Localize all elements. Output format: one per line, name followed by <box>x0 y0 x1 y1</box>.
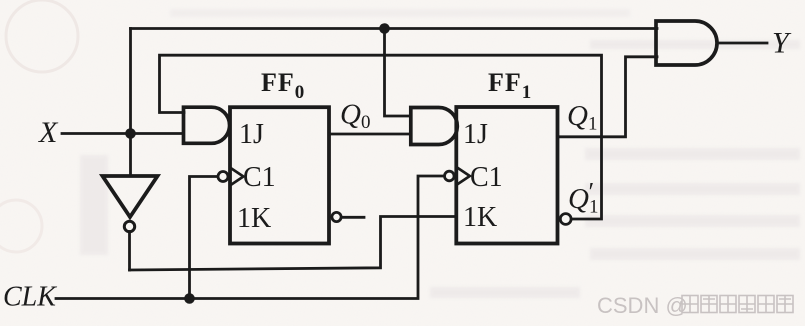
wire: CLK line <box>56 176 444 299</box>
wire: vertical from line A down through X junction to inverter input <box>129 29 132 177</box>
FF0 C1 input bubble <box>218 172 228 182</box>
faint scan circle mid-left <box>0 200 42 252</box>
wire: X input line into AND G1 <box>62 132 184 135</box>
faint ghost text smudges <box>80 9 800 298</box>
watermark CSDN <box>597 293 793 318</box>
svg-text:C1: C1 <box>243 162 276 193</box>
FF0 Q0' output bubble <box>332 212 341 221</box>
svg-text:1J: 1J <box>239 119 264 150</box>
svg-text:Q1′: Q1′ <box>568 178 598 218</box>
wire: Y output <box>717 42 767 45</box>
and-gate G2 (J1 = X AND Q0) <box>411 108 458 145</box>
node: junction dot CLK <box>184 293 195 304</box>
wire: top line A (X) from corner to output AND gate top input <box>131 27 658 30</box>
wire: line B feedback Q1' to AND G1 top input <box>160 55 602 219</box>
svg-text:1K: 1K <box>463 202 497 233</box>
FF1 C1 input bubble <box>445 171 455 181</box>
faint scan circle top-left <box>6 0 78 72</box>
inverter G4 triangle <box>103 176 158 217</box>
wire: X' line to FF1 1K input <box>130 217 457 271</box>
svg-text:CSDN @: CSDN @ <box>597 293 688 318</box>
svg-text:1K: 1K <box>237 203 271 234</box>
node: junction dot on line A <box>379 23 390 34</box>
FF1 Q1' output bubble <box>560 214 571 225</box>
svg-text:1J: 1J <box>463 119 488 150</box>
svg-text:X: X <box>38 116 59 149</box>
wire: Q0' stub <box>342 216 365 219</box>
FF0 C1 dynamic indicator <box>232 169 244 185</box>
node: junction dot X line <box>125 128 136 139</box>
and-gate G1 (J0 = X AND Q1') <box>184 107 230 143</box>
flip-flop FF0 box <box>230 107 329 243</box>
and-gate G3 output Y <box>656 21 717 65</box>
wire: Q0 output to AND G2 <box>329 133 411 136</box>
wire: inverter output down <box>128 232 131 271</box>
wire: Q1 output to output AND bottom input <box>558 57 657 137</box>
svg-text:C1: C1 <box>470 162 503 193</box>
FF1 C1 dynamic indicator <box>458 168 470 184</box>
wire: drop from line A to AND G2 top input <box>385 29 412 117</box>
flip-flop FF1 box <box>456 107 557 244</box>
svg-text:CLK: CLK <box>3 282 57 313</box>
inverter G4 output bubble <box>124 221 134 231</box>
wire: CLK branch up to FF0 C1 <box>190 177 219 299</box>
